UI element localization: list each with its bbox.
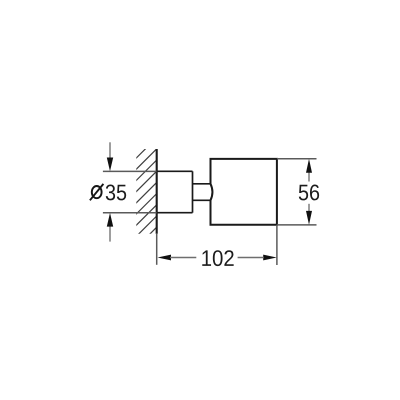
label 56 xyxy=(299,184,319,200)
102 right arrow xyxy=(238,255,277,261)
56 top arrow xyxy=(306,159,312,182)
extension line 102 right xyxy=(276,225,278,265)
wall hatching xyxy=(124,127,168,272)
56 bottom arrow xyxy=(306,204,312,225)
mount escutcheon xyxy=(157,171,193,212)
wall line xyxy=(156,149,158,234)
extension line 56 bottom xyxy=(277,224,317,226)
cup body with connector bulge on left edge xyxy=(211,159,277,225)
extension line dia35 bottom xyxy=(103,212,157,214)
extension line 56 top xyxy=(277,158,317,160)
label 35 xyxy=(106,184,126,200)
extension line 102 left xyxy=(156,234,158,265)
diameter symbol xyxy=(90,184,104,200)
dia35 top arrow xyxy=(107,142,113,171)
102 left arrow xyxy=(158,255,197,261)
dia35 bottom arrow xyxy=(107,213,113,242)
extension line dia35 top xyxy=(103,170,157,172)
neck connector xyxy=(193,184,211,201)
label 102 xyxy=(202,250,233,266)
